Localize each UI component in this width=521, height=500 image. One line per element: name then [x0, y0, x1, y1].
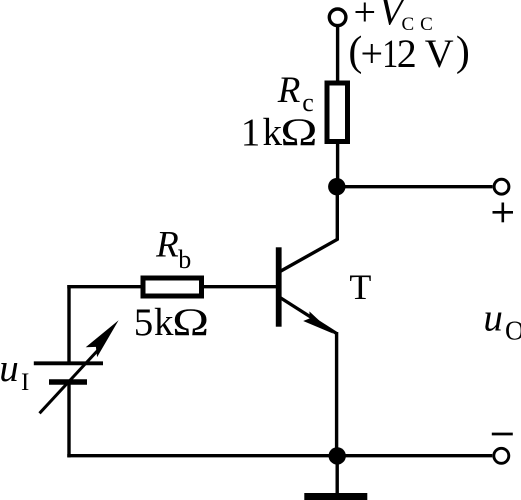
- label - (output polarity): [492, 433, 513, 436]
- svg-text:T: T: [349, 267, 371, 307]
- node emitter/ground junction: [329, 447, 346, 464]
- terminal output -: [494, 448, 509, 463]
- node collector/output junction: [328, 178, 345, 195]
- svg-text:I: I: [21, 369, 29, 396]
- wire base: Rb to transistor: [203, 285, 277, 288]
- svg-text:R: R: [155, 225, 179, 266]
- svg-text:1: 1: [382, 32, 398, 76]
- svg-text:u: u: [0, 347, 19, 390]
- svg-text:u: u: [483, 297, 503, 340]
- wire node to ground: [336, 456, 339, 494]
- resistor Rc: [327, 83, 348, 142]
- wire Rc to collector node: [336, 141, 339, 188]
- svg-text:1k: 1k: [241, 111, 283, 154]
- svg-text:O: O: [505, 316, 521, 346]
- wire bottom rail left: [67, 454, 337, 457]
- wire VCC terminal to Rc: [336, 26, 339, 83]
- label + (output polarity): [493, 203, 514, 223]
- resistor Rb: [143, 278, 202, 296]
- terminal +VCC: [329, 9, 346, 26]
- svg-text:Ω: Ω: [172, 300, 209, 344]
- source uI (variable battery): [34, 320, 119, 413]
- wire source to bottom rail: [67, 382, 70, 457]
- wire bottom rail to - output terminal: [337, 454, 492, 457]
- wire emitter down to bottom node: [335, 332, 338, 456]
- wire Rb to left corner: [67, 285, 144, 288]
- svg-text:5k: 5k: [134, 301, 174, 344]
- svg-text:+2V: +2V: [361, 31, 454, 76]
- terminal output +: [494, 179, 509, 194]
- ground: [304, 493, 367, 500]
- transistor T (NPN): [276, 239, 338, 333]
- wire node down to collector: [336, 187, 339, 241]
- svg-text:b: b: [178, 245, 191, 274]
- svg-text:R: R: [277, 70, 301, 111]
- svg-text:Ω: Ω: [280, 110, 317, 154]
- wire left rail down to source: [67, 285, 70, 362]
- wire node to + output terminal: [337, 185, 493, 188]
